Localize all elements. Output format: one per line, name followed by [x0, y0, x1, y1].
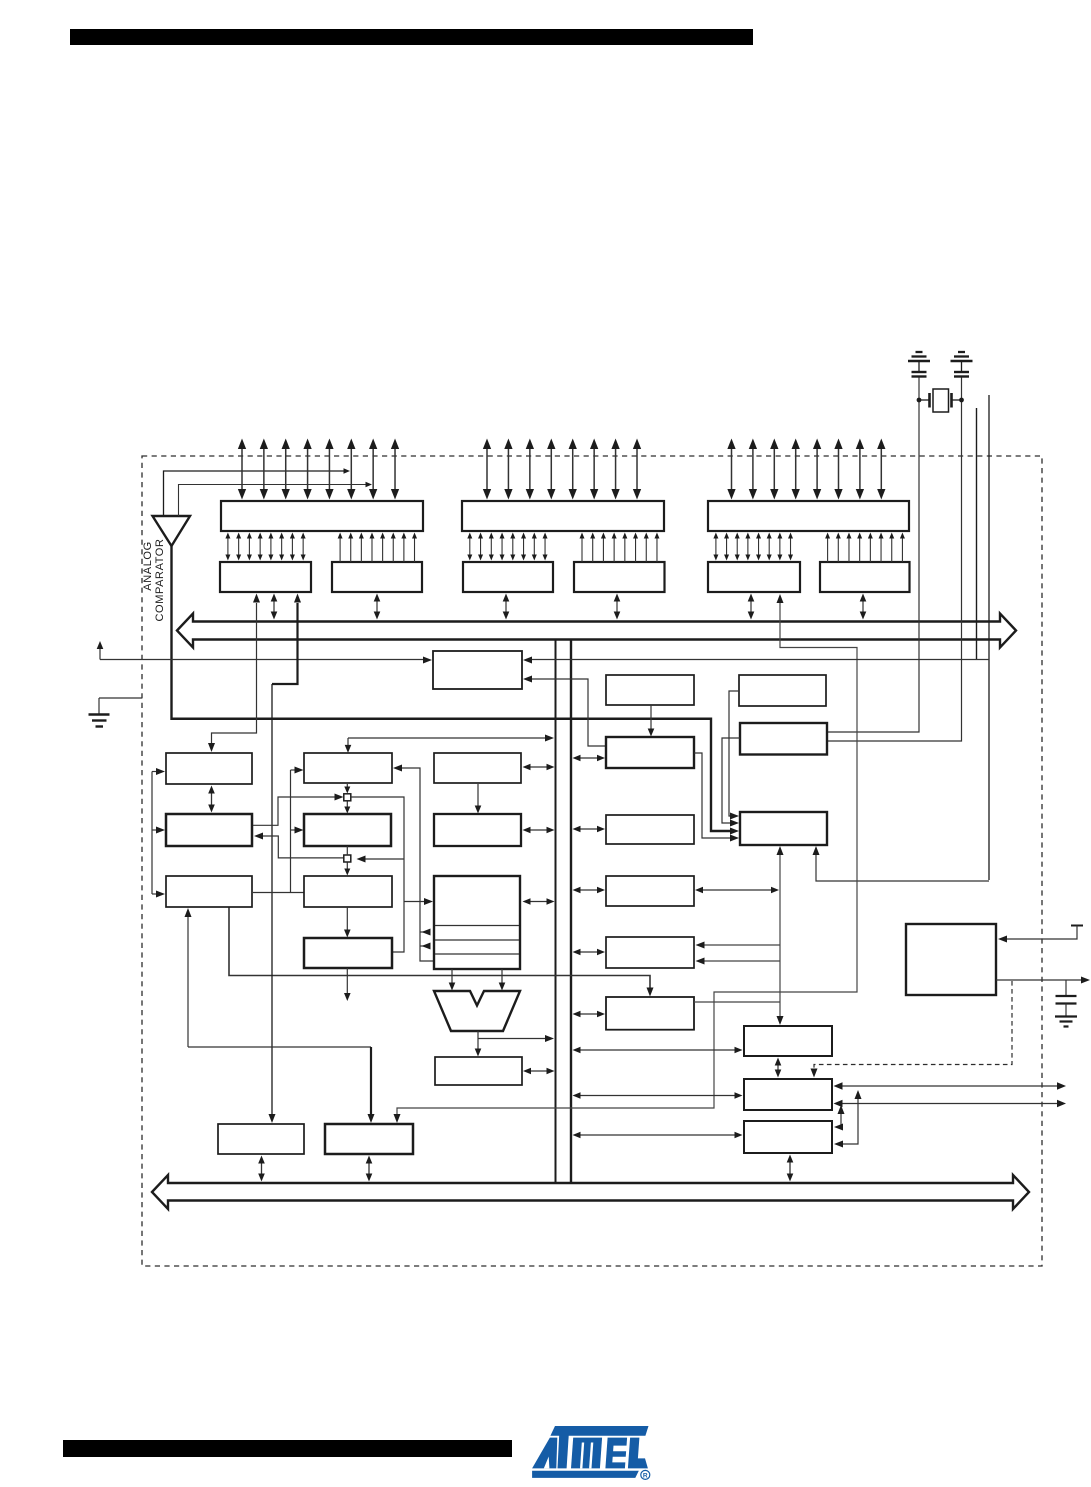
arrow status register-internal bus: [530, 1070, 548, 1072]
arrow register file to ALU (left): [451, 969, 453, 984]
timers/counters box: [606, 737, 694, 768]
arrow registers-internal bus: [530, 766, 548, 768]
data bus (upper): [177, 614, 1016, 648]
port D drivers/buffers box: [708, 501, 909, 531]
wire from RESET line into control block bottom: [816, 852, 989, 881]
port D pin arrows: [731, 448, 733, 490]
register-bus arrow: [750, 601, 752, 613]
AREF wire into status block: [100, 659, 425, 661]
status register box: [435, 1057, 522, 1085]
arrow interrupt block-bus: [368, 1163, 370, 1175]
wire timer column vertical: [779, 852, 781, 1018]
XTAL2 wire to oscillator: [828, 378, 919, 733]
dashed chip boundary: [142, 456, 1042, 1266]
wire register to instruction path (thick): [272, 603, 298, 684]
arrow registers to X/Y/Z: [477, 784, 479, 807]
arrow USART-internal bus: [580, 951, 599, 953]
timer/counter 1 box: [744, 1079, 832, 1110]
arrow into instruction register bottom: [187, 913, 189, 1047]
crystal: [933, 389, 949, 412]
EEPROM box: [606, 876, 694, 906]
arrow TWI to timers: [650, 705, 652, 730]
TWI box: [606, 675, 694, 705]
arrow interrupt-internal bus: [580, 828, 599, 830]
timer/counter 2 box: [744, 1121, 832, 1153]
port C pin arrows: [486, 448, 488, 490]
arrow ALU to status register: [477, 1031, 479, 1050]
arrow register file-internal bus: [530, 901, 548, 903]
MCU control and timing box: [740, 812, 827, 845]
port C drivers/buffers box: [462, 501, 664, 531]
wire ALU flags to internal bus: [478, 1038, 546, 1040]
wire timers to MCU control (right side): [694, 753, 732, 838]
load capacitor: [912, 371, 927, 373]
interrupt unit box: [606, 815, 694, 844]
pin stub: [976, 408, 978, 660]
arrow X register out: [420, 931, 428, 933]
arrow timer2-bus: [789, 1162, 791, 1175]
arrow into stack pointer top: [347, 746, 349, 747]
internal bus spine (left): [555, 641, 557, 1184]
data bus (lower): [152, 1175, 1029, 1209]
header rule bar: [70, 29, 753, 45]
port D data register box: [708, 562, 800, 592]
internal bus spine (right): [570, 641, 572, 1184]
SRAM box: [304, 814, 391, 846]
timer/counter 0 box: [744, 1026, 832, 1056]
wire control fan (arrows into left column blocks): [151, 772, 153, 895]
XTAL1 wire to oscillator: [828, 378, 962, 742]
dashed wire watchdog to timing block: [814, 981, 1012, 1071]
wire stack pointer select to internal bus: [348, 737, 546, 739]
register file box: [434, 876, 520, 969]
status/control register box: [433, 651, 522, 689]
arrow register file to ALU (right): [501, 969, 503, 984]
X/Y/Z register box: [434, 814, 521, 846]
wire indirect addressing (register file feedback): [399, 768, 434, 961]
watchdog output to external pin: [996, 979, 1083, 981]
mux bubble lower: [344, 855, 351, 862]
register-bus arrow: [862, 601, 864, 613]
ring wire right of mux bubbles: [351, 797, 404, 952]
wire feeds for stack pointer / SRAM / decoder column: [290, 770, 292, 893]
comparator output wire (thick, routed to control block): [172, 546, 733, 831]
wire from watchdog into status box: [531, 679, 605, 746]
stack pointer box: [304, 753, 392, 783]
interrupt/control block box: [325, 1124, 413, 1154]
port B data register box: [220, 562, 311, 592]
port C driver-register arrows: [469, 538, 471, 556]
port C data register box: [463, 562, 553, 592]
register-bus arrow: [505, 601, 507, 613]
wire SPI to timer column: [694, 1001, 780, 1003]
arrow stack pointer to mux bubble: [346, 784, 348, 788]
port B pin arrows: [241, 448, 243, 490]
RESET wire down right side: [988, 395, 990, 880]
instruction decoder box: [304, 876, 392, 907]
watchdog oscillator box: [906, 924, 996, 995]
ground symbol above load capacitor: [916, 351, 923, 353]
external capacitor to ground: [1065, 980, 1067, 996]
wire from right-hand oscillator line into status box: [531, 659, 989, 661]
svg-text:R: R: [643, 1473, 648, 1480]
svg-text:ANALOG: ANALOG: [142, 541, 154, 590]
wire instruction register to decoder: [253, 892, 304, 894]
arrow XYZ-internal bus: [530, 829, 548, 831]
hook wire into timer2 (upper): [840, 1112, 841, 1127]
arrow lower mux bubble into decoder: [346, 863, 348, 870]
arrow ring into register file: [404, 901, 427, 903]
register-bus arrow: [616, 601, 618, 613]
wire register to program counter: [212, 603, 257, 745]
arrow Y register out: [420, 945, 428, 947]
wire internal osc to MCU control: [729, 691, 739, 816]
port D driver-register arrows: [715, 538, 717, 556]
arrow mux bubble into SRAM: [346, 802, 348, 808]
arrow timer1-internal bus: [580, 1095, 736, 1097]
instruction register box: [166, 876, 252, 907]
wire from port register down across to control/timing blocks: [397, 603, 857, 1116]
RESET pin hook into watchdog box: [1071, 925, 1083, 927]
wire flash to mux bubble (upper): [253, 797, 337, 825]
wire mux bubble to flash (lower): [261, 836, 344, 858]
arrow timer2-internal bus: [580, 1134, 736, 1136]
general purpose registers box: [434, 753, 521, 783]
arrow bus to program counter: [211, 793, 213, 806]
port C data direction register box: [574, 562, 665, 592]
AGND ground symbol: [99, 697, 142, 699]
comparator input wire 2 (tap on port pin): [179, 485, 367, 517]
arrow decoder to control lines: [346, 907, 348, 931]
port B data direction register box: [332, 562, 422, 592]
wire thick drop to control block: [370, 1047, 372, 1115]
arrow EEPROM-internal bus: [580, 889, 599, 891]
wire control column into USART (upper): [702, 944, 780, 946]
program flash box: [166, 814, 252, 846]
timer1 external line (lower): [842, 1103, 1059, 1105]
AREF pin arrow: [99, 648, 101, 660]
arrow timers-internal bus: [580, 757, 599, 759]
load capacitor: [954, 371, 969, 373]
wire instruction decoder to peripherals: [229, 907, 650, 990]
port B drivers/buffers box: [221, 501, 423, 531]
port B driver-register arrows: [227, 538, 229, 556]
wire long vertical to control lines block: [271, 684, 273, 1115]
register file row lines: [435, 925, 519, 927]
oscillator box (internal): [739, 675, 826, 706]
analog comparator triangle: [153, 516, 191, 546]
crystal oscillator box: [740, 723, 827, 755]
timer1 external line (upper): [842, 1085, 1059, 1087]
port D data direction register box: [820, 562, 910, 592]
arrow timer0-internal bus: [580, 1049, 736, 1051]
Atmel logo: [532, 1426, 650, 1480]
svg-text:COMPARATOR: COMPARATOR: [154, 538, 166, 621]
control lines box: [304, 938, 392, 968]
footer rule bar: [63, 1440, 512, 1457]
ground symbol above load capacitor: [958, 351, 965, 353]
mux bubble upper: [344, 794, 351, 801]
program counter box: [166, 753, 252, 784]
register-bus arrow: [376, 601, 378, 613]
arrow EEPROM-control column: [702, 889, 772, 891]
general control block box: [218, 1124, 304, 1154]
arrow timer0-timer1: [777, 1065, 779, 1071]
comparator input wire 1 (tap on port pin): [164, 471, 345, 516]
ALU: [434, 991, 520, 1031]
USART box: [606, 937, 694, 968]
SPI box: [606, 997, 694, 1030]
arrow SPI-internal bus: [580, 1013, 599, 1015]
wire control column into USART (lower): [702, 960, 780, 962]
arrow control block-bus: [261, 1163, 263, 1175]
wire xtal osc to MCU control: [722, 738, 740, 823]
register-bus arrow: [273, 601, 275, 613]
wire SRAM to lower mux bubble: [346, 846, 348, 855]
wire to general control block: [188, 1046, 371, 1048]
arrow control lines output: [346, 968, 348, 994]
hook wire into timer2 (lower): [840, 1097, 858, 1144]
arrow ring into SRAM-mux lower bubble: [362, 858, 404, 860]
